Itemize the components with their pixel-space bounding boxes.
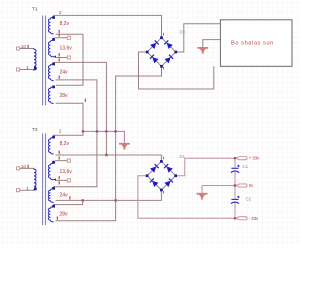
svg-text:13,6v: 13,6v [60, 169, 73, 175]
svg-text:C1: C1 [243, 164, 249, 169]
svg-text:T1: T1 [32, 7, 38, 13]
svg-text:T2: T2 [32, 127, 38, 133]
svg-text:D2: D2 [180, 30, 186, 35]
svg-text:C2: C2 [246, 196, 252, 201]
svg-text:28v: 28v [60, 93, 69, 99]
svg-text:24v: 24v [60, 192, 69, 198]
svg-text:8,2v: 8,2v [60, 141, 70, 147]
svg-text:28v: 28v [60, 211, 69, 217]
svg-text:2: 2 [59, 129, 62, 134]
svg-text:D1: D1 [180, 154, 186, 159]
svg-text:2: 2 [59, 10, 62, 15]
svg-text:- 33v: - 33v [249, 216, 259, 221]
svg-text:10: 10 [21, 44, 27, 49]
svg-text:24v: 24v [60, 70, 69, 76]
svg-text:1: 1 [26, 186, 29, 191]
svg-text:13,6v: 13,6v [60, 45, 73, 51]
svg-text:10: 10 [21, 164, 27, 169]
svg-text:+ 33v: + 33v [249, 156, 260, 161]
svg-text:8,2v: 8,2v [60, 21, 70, 27]
svg-text:Bo shalas sun: Bo shalas sun [231, 40, 274, 46]
svg-text:1: 1 [26, 65, 29, 70]
